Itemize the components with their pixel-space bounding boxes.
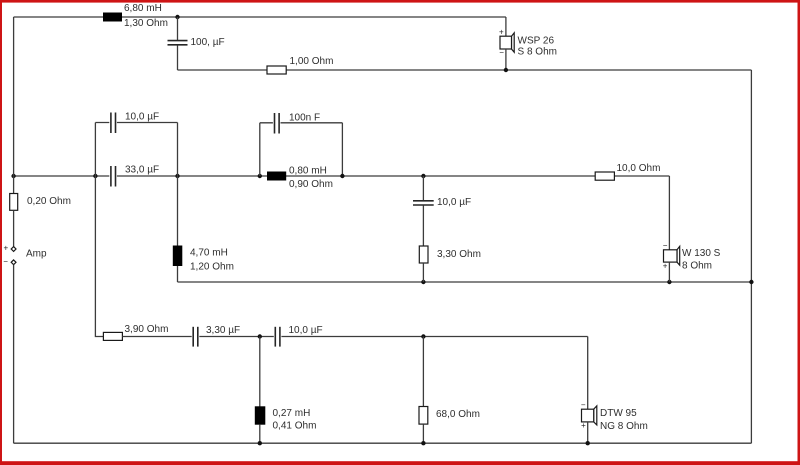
node y336 x259: [258, 334, 262, 338]
svg-text:3,90 Ohm: 3,90 Ohm: [125, 324, 169, 335]
wire resistor 68 down: [422, 424, 424, 443]
wire node to cap 100uF: [177, 17, 179, 40]
svg-text:68,0 Ohm: 68,0 Ohm: [436, 409, 480, 420]
svg-text:100, µF: 100, µF: [191, 37, 225, 48]
wire bottom bus y443: [14, 442, 752, 444]
speaker WSP 26: [500, 33, 514, 52]
inductor 6,80 mH: [103, 13, 122, 22]
wire inductor down to y282: [177, 266, 179, 282]
node top junction: [175, 15, 179, 19]
node bus x95: [93, 174, 97, 178]
node bus x177: [175, 174, 179, 178]
svg-text:W 130 S: W 130 S: [682, 248, 721, 259]
wire y282 horizontal: [178, 281, 752, 283]
wire x95 down branch: [95, 176, 103, 337]
frame left: [0, 0, 2, 465]
node y282 x669: [667, 280, 671, 284]
wire x422 down to resistor: [422, 337, 424, 407]
svg-text:−: −: [3, 257, 8, 266]
capacitor 33,0 uF: [109, 166, 117, 187]
resistor 3,90 Ohm: [103, 332, 122, 340]
wire x177 to inductor: [177, 176, 179, 246]
wire 100nF loop top: [260, 122, 343, 124]
svg-text:10,0 µF: 10,0 µF: [437, 197, 471, 208]
wire dtw95 bottom lead: [587, 422, 589, 443]
node bottom x422: [421, 441, 425, 445]
wire resistor to amp plus: [13, 210, 15, 246]
inductor 0,80 mH: [267, 172, 286, 181]
wire x259 down to inductor: [259, 337, 261, 407]
svg-text:NG 8 Ohm: NG 8 Ohm: [600, 421, 648, 432]
node wsp26 bottom: [504, 68, 508, 72]
capacitor 100, uF: [168, 41, 188, 45]
svg-text:10,0 Ohm: 10,0 Ohm: [617, 163, 661, 174]
amp plus terminal: [11, 247, 16, 252]
frame top: [0, 0, 800, 3]
node bus x342: [340, 174, 344, 178]
wire x669 bus corner down: [668, 176, 670, 250]
amp minus terminal: [11, 260, 16, 265]
wire y70 horizontal: [178, 69, 752, 71]
wire cap to resistor 3,30: [422, 206, 424, 247]
speaker W 130 S: [664, 246, 680, 265]
svg-text:+: +: [499, 27, 504, 36]
capacitor 3,30 uF: [192, 327, 200, 347]
svg-text:0,90 Ohm: 0,90 Ohm: [289, 179, 333, 190]
node bus x423: [421, 174, 425, 178]
capacitor 10,0 uF bottom: [274, 327, 282, 347]
svg-text:3,30 µF: 3,30 µF: [206, 325, 240, 336]
wire x423 bus to cap: [422, 176, 424, 201]
svg-text:0,80 mH: 0,80 mH: [289, 166, 327, 177]
capacitor 10,0 uF top: [109, 113, 117, 134]
svg-text:WSP 26: WSP 26: [518, 36, 555, 47]
svg-text:6,80 mH: 6,80 mH: [124, 3, 162, 14]
svg-text:−: −: [663, 241, 668, 250]
svg-text:10,0 µF: 10,0 µF: [289, 325, 323, 336]
wire mid bus y176: [14, 175, 670, 177]
svg-text:8 Ohm: 8 Ohm: [682, 261, 712, 272]
svg-text:3,30 Ohm: 3,30 Ohm: [437, 249, 481, 260]
svg-text:+: +: [581, 421, 586, 430]
svg-text:1,00 Ohm: 1,00 Ohm: [290, 56, 334, 67]
svg-text:+: +: [663, 262, 668, 271]
node y336 x422: [421, 334, 425, 338]
svg-text:1,20 Ohm: 1,20 Ohm: [190, 262, 234, 273]
node y282 x423: [421, 280, 425, 284]
wire w130s bottom lead: [668, 262, 670, 282]
speaker DTW 95: [582, 406, 597, 425]
wire 100nF loop right: [341, 123, 343, 176]
capacitor 10,0 uF mid: [413, 201, 434, 205]
resistor 10,0 Ohm: [595, 172, 614, 180]
svg-text:DTW 95: DTW 95: [600, 408, 637, 419]
svg-text:Amp: Amp: [26, 249, 47, 260]
frame bottom: [0, 461, 800, 465]
wire right vertical: [750, 70, 752, 443]
inductor 4,70 mH: [173, 246, 183, 267]
wire 10uF loop left: [94, 123, 96, 177]
node bottom x587: [586, 441, 590, 445]
node bottom x259: [258, 441, 262, 445]
wire 10uF loop top: [95, 122, 177, 124]
svg-text:0,20 Ohm: 0,20 Ohm: [27, 196, 71, 207]
wire top bus y17: [14, 16, 506, 18]
svg-text:33,0 µF: 33,0 µF: [125, 165, 159, 176]
wire left vertical top: [13, 17, 15, 194]
resistor 0,20 Ohm: [10, 194, 18, 211]
svg-text:1,30 Ohm: 1,30 Ohm: [124, 18, 168, 29]
frame right: [798, 0, 800, 465]
resistor 3,30 Ohm: [419, 246, 428, 263]
wire speaker top lead: [505, 17, 507, 37]
capacitor 100n F: [273, 113, 281, 134]
wire amp minus down: [13, 265, 15, 444]
svg-text:−: −: [581, 401, 586, 410]
node bus x259: [258, 174, 262, 178]
wire y336 horizontal: [122, 336, 587, 338]
wire x587 corner down to speaker: [587, 337, 589, 410]
node mid-left: [11, 174, 15, 178]
wire cap to y70 line: [177, 46, 179, 71]
svg-text:100n F: 100n F: [289, 113, 320, 124]
resistor 68,0 Ohm: [419, 407, 428, 425]
svg-text:4,70 mH: 4,70 mH: [190, 248, 228, 259]
svg-text:0,27 mH: 0,27 mH: [273, 408, 311, 419]
wire speaker bottom lead: [505, 49, 507, 70]
wire resistor 3,30 down: [422, 263, 424, 282]
resistor 1,00 Ohm: [267, 66, 286, 74]
svg-text:0,41 Ohm: 0,41 Ohm: [273, 421, 317, 432]
wire inductor 0,27 down: [259, 425, 261, 444]
node y282 x752: [749, 280, 753, 284]
svg-text:+: +: [3, 244, 8, 253]
svg-text:10,0 µF: 10,0 µF: [125, 112, 159, 123]
wire 100nF loop left: [259, 123, 261, 176]
svg-text:−: −: [499, 48, 504, 57]
wire 10uF loop right: [177, 123, 179, 177]
svg-text:S 8 Ohm: S 8 Ohm: [518, 47, 557, 58]
inductor 0,27 mH: [255, 406, 265, 424]
